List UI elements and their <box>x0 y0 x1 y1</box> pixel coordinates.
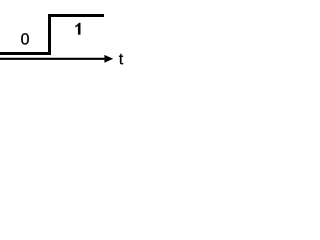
label t (time axis variable) <box>119 54 123 64</box>
time axis line <box>0 58 106 60</box>
label 0 (low level value) <box>21 33 29 44</box>
background <box>0 0 129 85</box>
label 1 (high level value) <box>76 23 81 35</box>
arrowhead of time axis <box>104 55 113 63</box>
step signal u(t): low segment, rising edge at t=0, high segment <box>0 16 104 54</box>
